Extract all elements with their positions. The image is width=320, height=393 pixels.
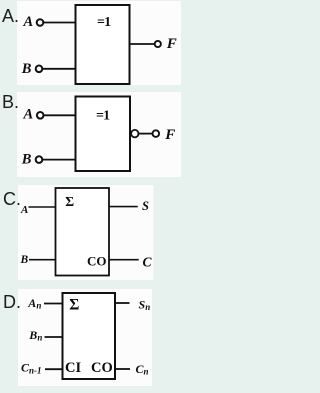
svg-text:B.: B. <box>2 92 19 112</box>
input terminal A (option A) <box>37 19 44 26</box>
svg-text:C.: C. <box>3 189 21 209</box>
svg-text:Σ: Σ <box>69 296 79 313</box>
wire carry output C (option C) <box>109 259 139 261</box>
option A white panel <box>17 1 181 85</box>
svg-text:CO: CO <box>87 253 107 268</box>
wire input Bn to adder (option D) <box>45 336 64 338</box>
full-adder U1 body (option D) <box>63 293 116 379</box>
svg-text:Σ: Σ <box>65 194 74 209</box>
wire sum output S (option C) <box>109 206 138 208</box>
inversion bubble at gate output (option B) <box>131 130 138 137</box>
wire bubble to terminal F (option B) <box>139 133 153 135</box>
wire input B to adder (option C) <box>29 259 56 261</box>
svg-text:B: B <box>21 152 32 168</box>
svg-text:B: B <box>20 254 29 266</box>
half-adder U1 body (option C) <box>56 188 110 276</box>
svg-text:F: F <box>164 127 175 143</box>
wire sum output Sn (option D) <box>115 302 130 304</box>
wire input B to gate (option A) <box>43 68 77 70</box>
input terminal A (option B) <box>37 112 44 119</box>
wire carry output Cn (option D) <box>115 368 130 370</box>
option B white panel <box>17 92 181 177</box>
svg-text:A: A <box>23 14 34 30</box>
wire input B to gate (option B) <box>43 159 77 161</box>
svg-text:A.: A. <box>2 6 19 26</box>
svg-text:=1: =1 <box>96 108 110 123</box>
XOR gate U1 body (option A) <box>76 5 130 84</box>
svg-text:B: B <box>21 61 32 77</box>
wire input Cn-1 to adder (option D) <box>45 368 64 370</box>
svg-text:=1: =1 <box>97 15 111 30</box>
svg-text:A: A <box>23 107 34 123</box>
svg-text:C: C <box>143 254 153 269</box>
input terminal B (option B) <box>36 156 43 163</box>
option D white panel <box>18 289 152 386</box>
svg-text:CI: CI <box>65 360 81 376</box>
svg-text:F: F <box>166 36 177 52</box>
wire gate output to terminal F (option A) <box>129 43 156 45</box>
svg-text:A: A <box>20 204 28 216</box>
option C white panel <box>18 185 154 280</box>
input terminal B (option A) <box>36 66 43 73</box>
wire input A to adder (option C) <box>29 206 57 208</box>
svg-text:CO: CO <box>91 360 113 376</box>
wire input A to gate (option B) <box>44 114 77 116</box>
wire input An to adder (option D) <box>44 303 64 305</box>
output terminal F (option A) <box>155 41 161 47</box>
output terminal F (option B) <box>153 130 160 137</box>
wire input A to gate (option A) <box>44 22 77 24</box>
XNOR gate U1 body (option B) <box>76 97 131 172</box>
svg-text:D.: D. <box>3 292 21 312</box>
svg-text:S: S <box>142 199 149 213</box>
